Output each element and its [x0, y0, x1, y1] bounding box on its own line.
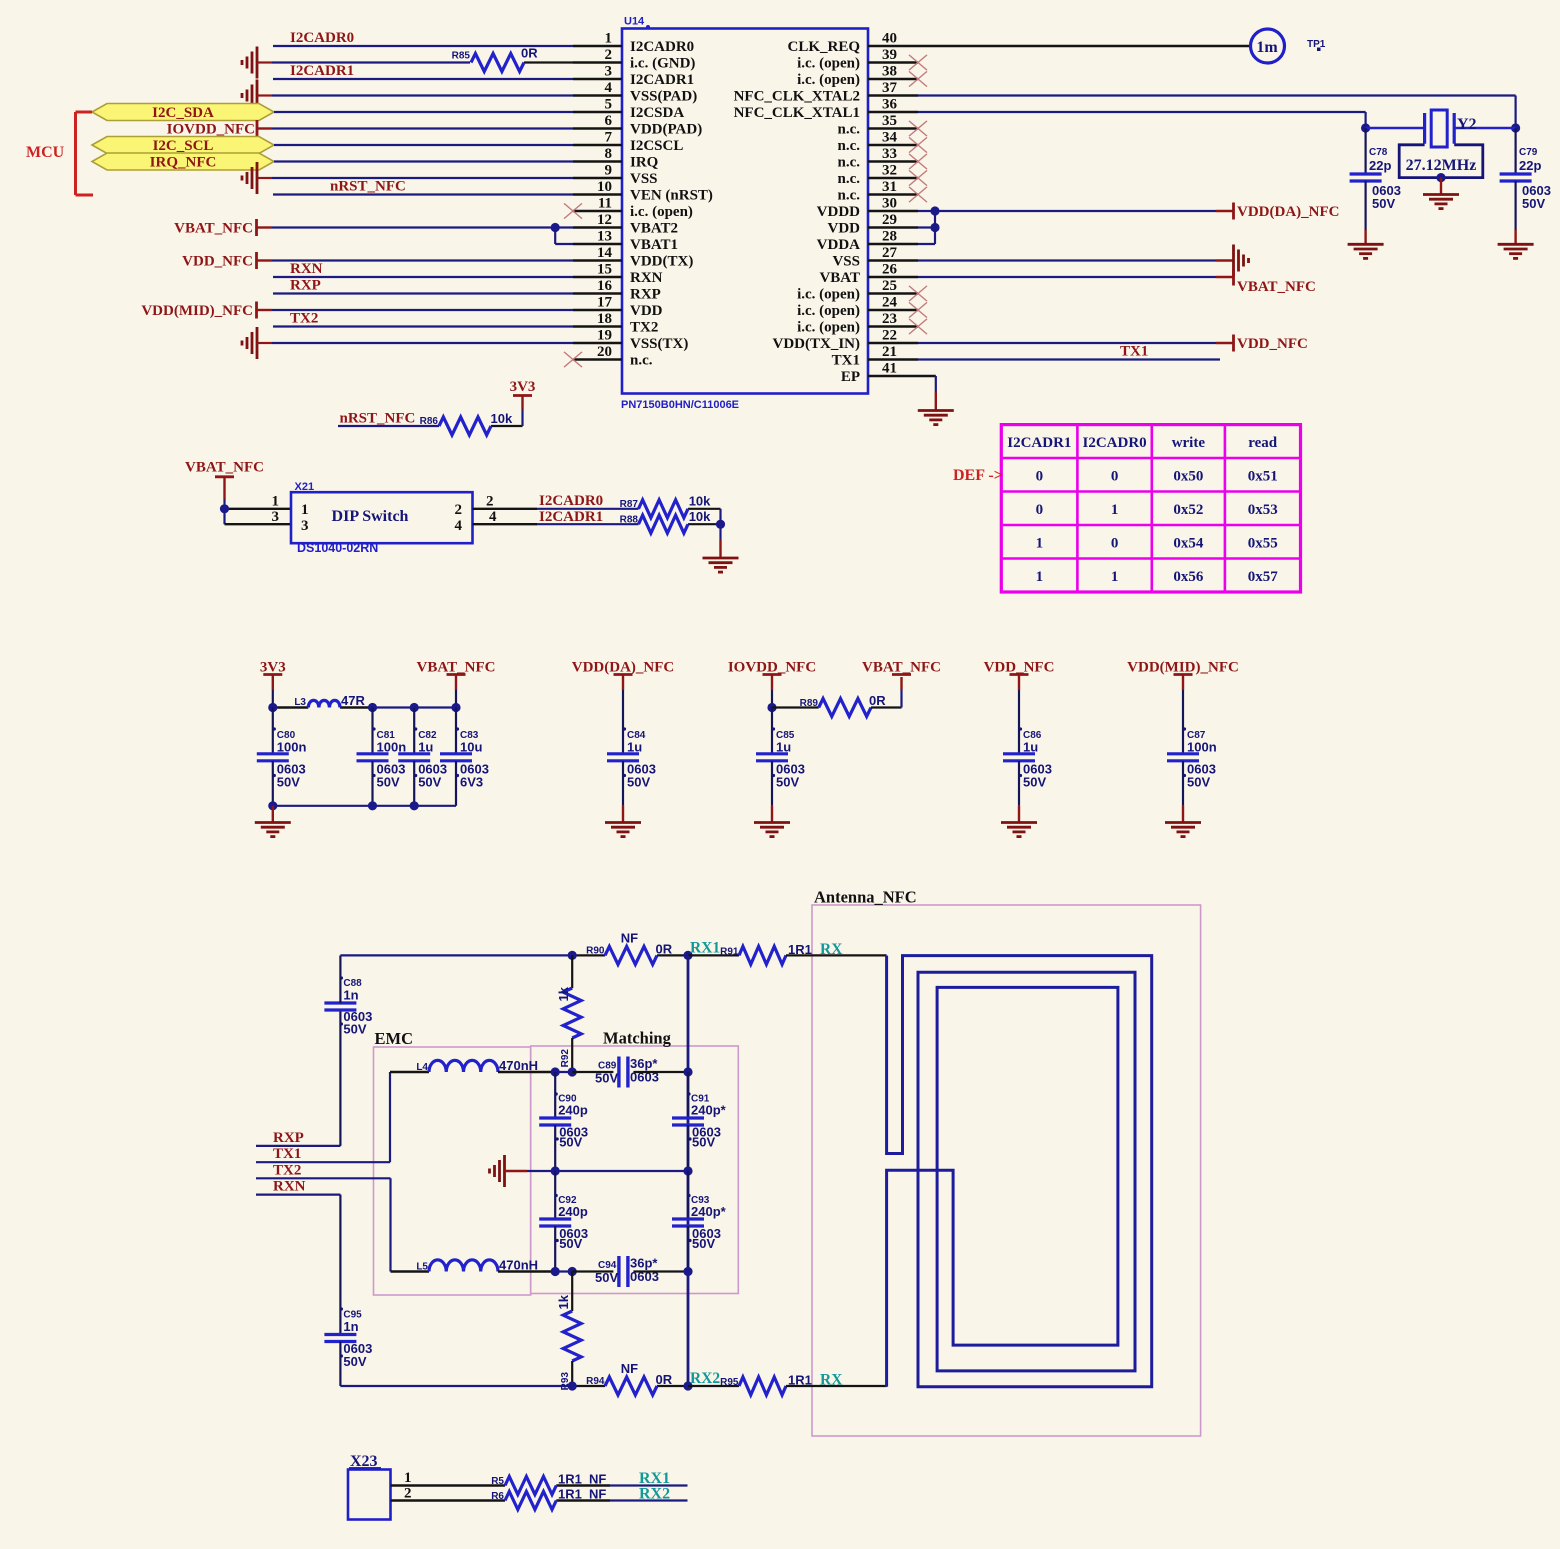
svg-text:240p: 240p [558, 1204, 588, 1219]
svg-text:2: 2 [605, 47, 613, 63]
junction RX1 [683, 951, 692, 960]
svg-text:VSS: VSS [832, 254, 860, 270]
crystal Y2 [1366, 110, 1516, 147]
svg-text:VBAT1: VBAT1 [630, 237, 678, 253]
svg-text:50V: 50V [343, 1354, 366, 1369]
wire top rail group A [273, 706, 456, 708]
ground R87 R88 [703, 558, 739, 572]
svg-text:50V: 50V [1023, 775, 1046, 790]
ground crystal [1423, 195, 1459, 209]
wire TX1 [256, 1072, 429, 1162]
svg-text:R85: R85 [452, 51, 471, 62]
capacitor C92 240p [539, 1171, 588, 1272]
wire pin5 [274, 111, 573, 113]
capacitor C93 240p* [672, 1171, 727, 1272]
label Matching [603, 1029, 672, 1048]
svg-text:27: 27 [882, 245, 898, 261]
ground pin2 [242, 47, 257, 79]
svg-text:VBAT_NFC: VBAT_NFC [862, 660, 941, 676]
svg-text:39: 39 [882, 47, 897, 63]
svg-text:RXP: RXP [290, 278, 321, 294]
net label RX1 [690, 940, 720, 957]
ground C86 [1001, 823, 1037, 837]
svg-text:1k: 1k [556, 986, 571, 1001]
svg-text:L4: L4 [416, 1062, 428, 1073]
junction rail A4 [451, 703, 460, 712]
net label TX1 bottom [273, 1146, 301, 1162]
svg-text:TX1: TX1 [1120, 344, 1148, 360]
svg-text:I2CADR0: I2CADR0 [630, 39, 694, 55]
capacitor C91 240p* [672, 1072, 727, 1171]
svg-text:RX2: RX2 [639, 1486, 670, 1503]
svg-text:IRQ_NFC: IRQ_NFC [150, 155, 217, 171]
IC U14 left pins 1-20 with numbers and names [573, 31, 713, 369]
svg-text:470nH: 470nH [499, 1258, 538, 1273]
supply VDD(MID)_NFC pin17 [141, 302, 256, 320]
svg-text:VBAT_NFC: VBAT_NFC [185, 460, 264, 476]
resistor R87 10k [620, 494, 712, 518]
wire pin36 NFC_CLK_XTAL1 [918, 112, 1366, 128]
svg-text:VDD: VDD [828, 221, 861, 237]
svg-text:NF: NF [621, 1361, 638, 1376]
svg-text:29: 29 [882, 212, 897, 228]
svg-text:I2CADR1: I2CADR1 [290, 63, 354, 79]
wire X21 pin2 [473, 508, 721, 510]
wire pin6 [257, 127, 573, 129]
ground C87 [1165, 823, 1201, 837]
svg-text:TP1: TP1 [1307, 39, 1326, 50]
svg-text:47R: 47R [341, 693, 365, 708]
svg-text:26: 26 [882, 262, 898, 278]
svg-text:1: 1 [301, 502, 309, 518]
svg-text:0x50: 0x50 [1173, 468, 1203, 484]
svg-text:240p*: 240p* [691, 1204, 727, 1219]
svg-text:4: 4 [455, 518, 463, 534]
svg-text:C79: C79 [1519, 147, 1538, 158]
wire pin7 [274, 144, 573, 146]
svg-text:27.12MHz: 27.12MHz [1406, 157, 1477, 174]
svg-text:IOVDD_NFC: IOVDD_NFC [167, 122, 255, 138]
svg-text:2: 2 [455, 502, 463, 518]
net label nRST_NFC R86 [340, 411, 416, 427]
svg-text:1m: 1m [1256, 39, 1278, 56]
wire pin17 [257, 309, 573, 311]
label DEF arrow [953, 467, 1003, 484]
svg-text:Antenna_NFC: Antenna_NFC [814, 888, 917, 907]
svg-text:VDD(TX): VDD(TX) [630, 254, 693, 270]
supply VBAT_NFC pin26 [1234, 269, 1316, 296]
junction C89 right [683, 1067, 692, 1076]
svg-text:TX1: TX1 [273, 1146, 301, 1162]
svg-text:10: 10 [597, 179, 612, 195]
svg-text:RXP: RXP [273, 1130, 304, 1146]
no-connect X pin 38 [909, 71, 927, 86]
svg-text:RX1: RX1 [639, 1470, 670, 1487]
svg-text:TX2: TX2 [273, 1162, 301, 1178]
wire pin4 [257, 94, 573, 96]
DIP switch X21 body [291, 481, 473, 555]
testpoint 1m circle [1251, 29, 1285, 63]
svg-text:0: 0 [1111, 535, 1119, 551]
wire X21 pin4 [473, 523, 721, 525]
label EMC [375, 1029, 414, 1048]
svg-text:50V: 50V [595, 1270, 618, 1285]
resistor R88 10k [620, 509, 712, 533]
svg-text:n.c.: n.c. [838, 188, 861, 204]
svg-text:n.c.: n.c. [838, 171, 861, 187]
net label RX2 [690, 1370, 720, 1387]
svg-text:i.c. (open): i.c. (open) [630, 204, 693, 220]
svg-text:VBAT_NFC: VBAT_NFC [1237, 279, 1316, 295]
svg-text:25: 25 [882, 278, 897, 294]
label Antenna_NFC [814, 888, 917, 907]
resistor R94 0R NF [586, 1361, 673, 1395]
svg-text:31: 31 [882, 179, 897, 195]
svg-text:1R1: 1R1 [558, 1487, 582, 1502]
svg-text:PN7150B0HN/C11006E: PN7150B0HN/C11006E [621, 399, 739, 411]
svg-text:RX1: RX1 [690, 940, 720, 957]
X23 pin numbers [404, 1470, 412, 1502]
svg-text:nRST_NFC: nRST_NFC [330, 179, 406, 195]
svg-text:I2CADR1: I2CADR1 [539, 509, 603, 525]
region box Matching [531, 1046, 739, 1294]
capacitor C90 240p [539, 1072, 588, 1171]
supply IOVDD_NFC pin6 [167, 120, 257, 138]
svg-text:i.c. (open): i.c. (open) [797, 320, 860, 336]
svg-text:NF: NF [589, 1487, 606, 1502]
supply 3V3 R86 [510, 379, 536, 396]
wire pin30 VDDD [918, 210, 1234, 212]
svg-text:Y2: Y2 [1457, 116, 1477, 133]
svg-text:0R: 0R [869, 693, 886, 708]
svg-text:1k: 1k [556, 1294, 571, 1309]
wire pin8 [274, 160, 573, 162]
svg-text:VDD(PAD): VDD(PAD) [630, 122, 702, 138]
inductor L4 470nH [416, 1058, 538, 1073]
svg-text:VSS(TX): VSS(TX) [630, 336, 688, 352]
svg-text:VBAT2: VBAT2 [630, 221, 678, 237]
svg-text:50V: 50V [692, 1236, 715, 1251]
wire VBAT_NFC X21 [225, 477, 292, 524]
svg-text:1u: 1u [776, 740, 791, 755]
svg-text:VBAT: VBAT [819, 270, 860, 286]
svg-text:I2CADR1: I2CADR1 [1007, 435, 1071, 451]
ground EP [918, 411, 954, 425]
svg-text:RXP: RXP [630, 287, 661, 303]
svg-text:i.c. (open): i.c. (open) [797, 72, 860, 88]
svg-text:I2C_SDA: I2C_SDA [152, 105, 214, 121]
supply VBAT_NFC caps [417, 660, 496, 708]
wire L4-C89 [498, 1071, 572, 1073]
no-connect X pin 25 [909, 286, 927, 301]
svg-text:I2CADR1: I2CADR1 [630, 72, 694, 88]
net label TX2 bottom [273, 1162, 301, 1178]
svg-text:17: 17 [597, 295, 613, 311]
wire RXP [256, 1011, 340, 1146]
svg-text:NF: NF [589, 1472, 606, 1487]
resistor R90 0R NF [586, 931, 673, 965]
inductor L3 47R [294, 693, 365, 708]
supply VDD_NFC pin14 [182, 252, 256, 270]
wire R91-antenna [786, 954, 887, 956]
svg-text:10u: 10u [460, 740, 482, 755]
svg-text:R6: R6 [491, 1491, 504, 1502]
no-connect X pin 20 [564, 352, 582, 367]
resistor R85 0R [452, 46, 539, 72]
no-connect X pin 32 [909, 170, 927, 185]
svg-text:R5: R5 [491, 1476, 504, 1487]
capacitor C78 22p [1350, 128, 1401, 244]
svg-text:NFC_CLK_XTAL2: NFC_CLK_XTAL2 [734, 89, 860, 105]
wire RX1-R91 [688, 954, 739, 956]
svg-text:1: 1 [1111, 502, 1119, 518]
svg-text:0x53: 0x53 [1248, 502, 1278, 518]
svg-text:R95: R95 [720, 1377, 739, 1388]
svg-text:12: 12 [597, 212, 612, 228]
svg-text:X21: X21 [295, 481, 315, 493]
svg-text:1n: 1n [343, 1319, 358, 1334]
svg-text:i.c. (open): i.c. (open) [797, 287, 860, 303]
supply VDD_NFC pin22 [1234, 335, 1308, 353]
svg-text:18: 18 [597, 311, 612, 327]
net label TX1 [1120, 344, 1148, 360]
svg-text:VDDD: VDDD [817, 204, 860, 220]
net label RX2 X23 [639, 1486, 670, 1503]
svg-text:3: 3 [605, 64, 613, 80]
svg-text:28: 28 [882, 229, 897, 245]
svg-text:0: 0 [1036, 468, 1044, 484]
junction R93 top [568, 1267, 577, 1276]
no-connect X pin 33 [909, 154, 927, 169]
svg-text:VSS(PAD): VSS(PAD) [630, 89, 697, 105]
net label RXP [273, 1130, 304, 1146]
no-connect X pin 35 [909, 121, 927, 136]
svg-text:7: 7 [605, 130, 613, 146]
capacitor C88 1n [324, 976, 372, 1036]
svg-text:9: 9 [605, 163, 613, 179]
svg-text:TX1: TX1 [832, 353, 860, 369]
svg-text:i.c. (open): i.c. (open) [797, 56, 860, 72]
svg-text:MCU: MCU [26, 144, 65, 161]
wire pin14 [257, 259, 573, 261]
svg-text:R90: R90 [586, 945, 605, 956]
label TP1 [1307, 39, 1326, 51]
junction rail A3 [410, 703, 419, 712]
svg-text:VDD_NFC: VDD_NFC [1237, 336, 1308, 352]
MCU bracket [26, 112, 93, 195]
crystal freq box 27.12MHz [1399, 145, 1483, 178]
resistor R92 1k [556, 955, 581, 1072]
resistor R93 1k [556, 1272, 581, 1391]
supply VBAT_NFC R89 [862, 660, 941, 676]
svg-text:32: 32 [882, 163, 897, 179]
capacitor C83 10u [440, 708, 489, 806]
capacitor C85 1u [756, 708, 805, 823]
svg-text:R86: R86 [420, 416, 439, 427]
no-connect X pin 24 [909, 302, 927, 317]
junction rail A2 [368, 703, 377, 712]
ground C85 [754, 823, 790, 837]
svg-text:VDD(TX_IN): VDD(TX_IN) [773, 336, 861, 352]
supply 3V3 caps [260, 660, 286, 708]
wire pin21 TX1 [918, 358, 1220, 360]
wire C95 bottom [339, 1342, 341, 1387]
supply VDD(MID)_NFC C87 [1127, 660, 1239, 708]
ground C78 [1348, 244, 1384, 258]
ground pin4 [242, 80, 257, 112]
junction X21 pin1 [220, 504, 229, 513]
wire pin2 [257, 61, 573, 63]
capacitor C86 1u [1003, 708, 1052, 823]
svg-text:3: 3 [301, 518, 309, 534]
svg-text:NFC_CLK_XTAL1: NFC_CLK_XTAL1 [734, 105, 860, 121]
svg-text:VBAT_NFC: VBAT_NFC [174, 221, 253, 237]
svg-text:R92: R92 [560, 1049, 571, 1068]
net label RXP pin16 [290, 278, 321, 294]
ground pin19 [242, 327, 257, 359]
supply IOVDD_NFC C85 [728, 660, 816, 708]
junction RX2 [683, 1381, 692, 1390]
svg-text:1u: 1u [1023, 740, 1038, 755]
net label I2CADR0 pin1 [290, 30, 354, 46]
junction pin30 [930, 206, 939, 215]
svg-text:1n: 1n [343, 988, 358, 1003]
capacitor C81 100n [357, 708, 407, 806]
flag I2C_SDA pin5 [92, 104, 274, 122]
svg-text:15: 15 [597, 262, 612, 278]
junction R93 bottom [568, 1381, 577, 1390]
svg-text:0x56: 0x56 [1173, 569, 1204, 585]
svg-text:30: 30 [882, 196, 897, 212]
svg-text:3V3: 3V3 [510, 379, 536, 395]
X21 outer pin numbers [272, 493, 498, 525]
svg-text:n.c.: n.c. [630, 353, 653, 369]
svg-text:read: read [1248, 435, 1278, 451]
junction crystal left [1361, 123, 1370, 132]
svg-text:L5: L5 [416, 1262, 428, 1273]
svg-text:35: 35 [882, 113, 897, 129]
IC U14 right pins 21-41 with numbers and names [734, 31, 918, 386]
wire R87-R88 join [719, 509, 721, 558]
junction R88 [716, 520, 725, 529]
svg-text:IRQ: IRQ [630, 155, 659, 171]
svg-text:R87: R87 [620, 499, 639, 510]
svg-text:C78: C78 [1369, 147, 1388, 158]
svg-text:I2CSCL: I2CSCL [630, 138, 683, 154]
wire R89 left [772, 706, 819, 708]
svg-text:16: 16 [597, 278, 613, 294]
wire pin12-pin13 [555, 228, 573, 245]
svg-text:240p*: 240p* [691, 1103, 727, 1118]
wire nRST_NFC [338, 396, 523, 426]
junction IOVDD [767, 703, 776, 712]
ground pin9 [242, 162, 257, 194]
svg-text:0: 0 [1036, 502, 1044, 518]
region box EMC [374, 1047, 531, 1295]
supply VDD_NFC C86 [984, 660, 1055, 708]
wire RXN [256, 1195, 340, 1335]
svg-text:50V: 50V [627, 775, 650, 790]
ground group A [255, 823, 291, 837]
svg-text:RXN: RXN [630, 270, 663, 286]
svg-text:DIP Switch: DIP Switch [332, 508, 409, 525]
svg-text:0R: 0R [656, 1372, 673, 1387]
svg-text:50V: 50V [418, 775, 441, 790]
svg-text:24: 24 [882, 295, 898, 311]
wire pin22 VDD(TX_IN) [918, 342, 1234, 344]
svg-text:0: 0 [1111, 468, 1119, 484]
svg-text:0x54: 0x54 [1173, 535, 1204, 551]
svg-text:50V: 50V [559, 1135, 582, 1150]
svg-text:1u: 1u [418, 740, 433, 755]
svg-text:2: 2 [486, 493, 494, 509]
wire pin29 VDD [918, 226, 935, 228]
flag I2C_SCL pin7 [92, 137, 274, 155]
svg-text:n.c.: n.c. [838, 138, 861, 154]
junction R92 bottom [568, 1067, 577, 1076]
svg-text:1R1: 1R1 [558, 1472, 582, 1487]
svg-text:R88: R88 [620, 515, 639, 526]
resistor R95 1R1 [720, 1373, 812, 1396]
svg-text:50V: 50V [1522, 196, 1545, 211]
svg-text:50V: 50V [377, 775, 400, 790]
junction crystal right [1511, 123, 1520, 132]
wire pin26 VBAT [918, 276, 1234, 278]
wire pin27 VSS [918, 259, 1234, 261]
svg-text:50V: 50V [1372, 196, 1395, 211]
svg-text:EP: EP [841, 369, 860, 385]
net label I2CADR1 pin3 [290, 63, 354, 79]
svg-text:0x55: 0x55 [1248, 535, 1278, 551]
svg-text:L3: L3 [294, 697, 306, 708]
junction R92 top [568, 951, 577, 960]
svg-text:R89: R89 [800, 698, 819, 709]
svg-text:50V: 50V [692, 1135, 715, 1150]
wire R95-antenna [786, 1385, 887, 1387]
svg-text:8: 8 [605, 146, 613, 162]
junction brail A2 [368, 801, 377, 810]
svg-text:I2CADR0: I2CADR0 [290, 30, 354, 46]
svg-text:22p: 22p [1519, 158, 1541, 173]
svg-text:I2CSDA: I2CSDA [630, 105, 684, 121]
svg-text:50V: 50V [595, 1071, 618, 1086]
no-connect X pin 34 [909, 137, 927, 152]
svg-text:I2C_SCL: I2C_SCL [153, 138, 214, 154]
svg-text:40: 40 [882, 31, 897, 47]
inductor L5 470nH [416, 1258, 538, 1273]
svg-text:write: write [1172, 435, 1206, 451]
svg-text:CLK_REQ: CLK_REQ [787, 39, 860, 55]
svg-text:1: 1 [1111, 569, 1119, 585]
svg-text:0x51: 0x51 [1248, 468, 1278, 484]
svg-text:R94: R94 [586, 1376, 605, 1387]
svg-text:100n: 100n [1187, 740, 1217, 755]
svg-text:50V: 50V [277, 775, 300, 790]
capacitor C94 36p [572, 1256, 688, 1288]
no-connect X pin 39 [909, 55, 927, 70]
svg-text:DS1040-02RN: DS1040-02RN [297, 541, 378, 555]
svg-text:RX2: RX2 [690, 1370, 720, 1387]
flag IRQ_NFC pin8 [92, 153, 274, 171]
svg-text:VDDA: VDDA [817, 237, 860, 253]
svg-text:470nH: 470nH [499, 1058, 538, 1073]
IC U14 PN7150 body [621, 16, 868, 412]
wire pin16 [273, 292, 573, 294]
svg-text:1: 1 [1036, 569, 1044, 585]
wire C88 top [339, 955, 341, 1003]
junction brail A1 [268, 801, 277, 810]
svg-text:50V: 50V [559, 1236, 582, 1251]
